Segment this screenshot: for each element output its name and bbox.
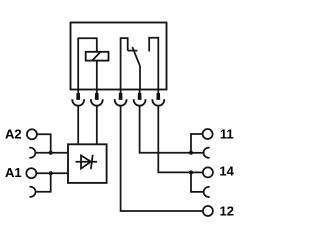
plug pin 5 [152,90,164,106]
plug pin 1 [72,90,84,106]
NC contact bar [128,50,138,52]
terminal 12 circle [203,206,213,216]
terminal 11 circle [203,129,213,139]
wire A1 to box [36,172,68,174]
wire pin4 to terminal 11 [140,106,191,153]
plug pin 4 [134,90,146,106]
wire A2 hook to box [35,152,68,154]
plug pin 2 [91,90,103,106]
wire coil loop left vertical [78,38,97,89]
terminal A1 socket hook [30,187,36,197]
wire pin1 to input box [77,106,79,145]
wire A2 to junction [37,134,51,153]
junction A2 [49,151,53,155]
relay coil K1 [86,52,109,61]
wire 14 stub [191,171,203,173]
terminal A1 circle [26,168,36,178]
wire A1 junction to hook [35,173,50,192]
contact NC fixed terminal (staple to pin 3) [121,38,128,89]
contact NO fixed terminal (staple to pin 5) [149,38,158,90]
svg-text:11: 11 [220,127,234,142]
plug pin 3 [115,90,127,106]
terminal 11 socket hook [204,148,210,158]
svg-text:A1: A1 [5,165,22,180]
terminal 14 socket hook [204,187,210,197]
contact moving lever [132,47,140,66]
wire pin2 to input box [96,106,98,145]
input circuit box [68,144,107,183]
diode V1 [76,155,98,169]
wire pin3 to terminal 12 [121,106,203,211]
svg-text:12: 12 [220,203,234,218]
wire 14 junction to hook [191,172,204,192]
junction A1 [49,171,53,175]
wire 11 hook stub [191,152,204,154]
terminal A2 circle [27,129,37,139]
svg-text:14: 14 [219,164,234,179]
wire coil bottom lead [96,61,98,90]
wire 11 riser [191,134,203,153]
wire common lead [139,66,141,90]
wire pin5 to terminal 14 [158,106,191,173]
svg-text:A2: A2 [5,127,22,142]
terminal A2 socket hook [29,148,35,158]
junction 11 [189,151,193,155]
terminal 14 circle [203,167,213,177]
relay module outline box [71,23,167,90]
junction 14 [189,170,193,174]
